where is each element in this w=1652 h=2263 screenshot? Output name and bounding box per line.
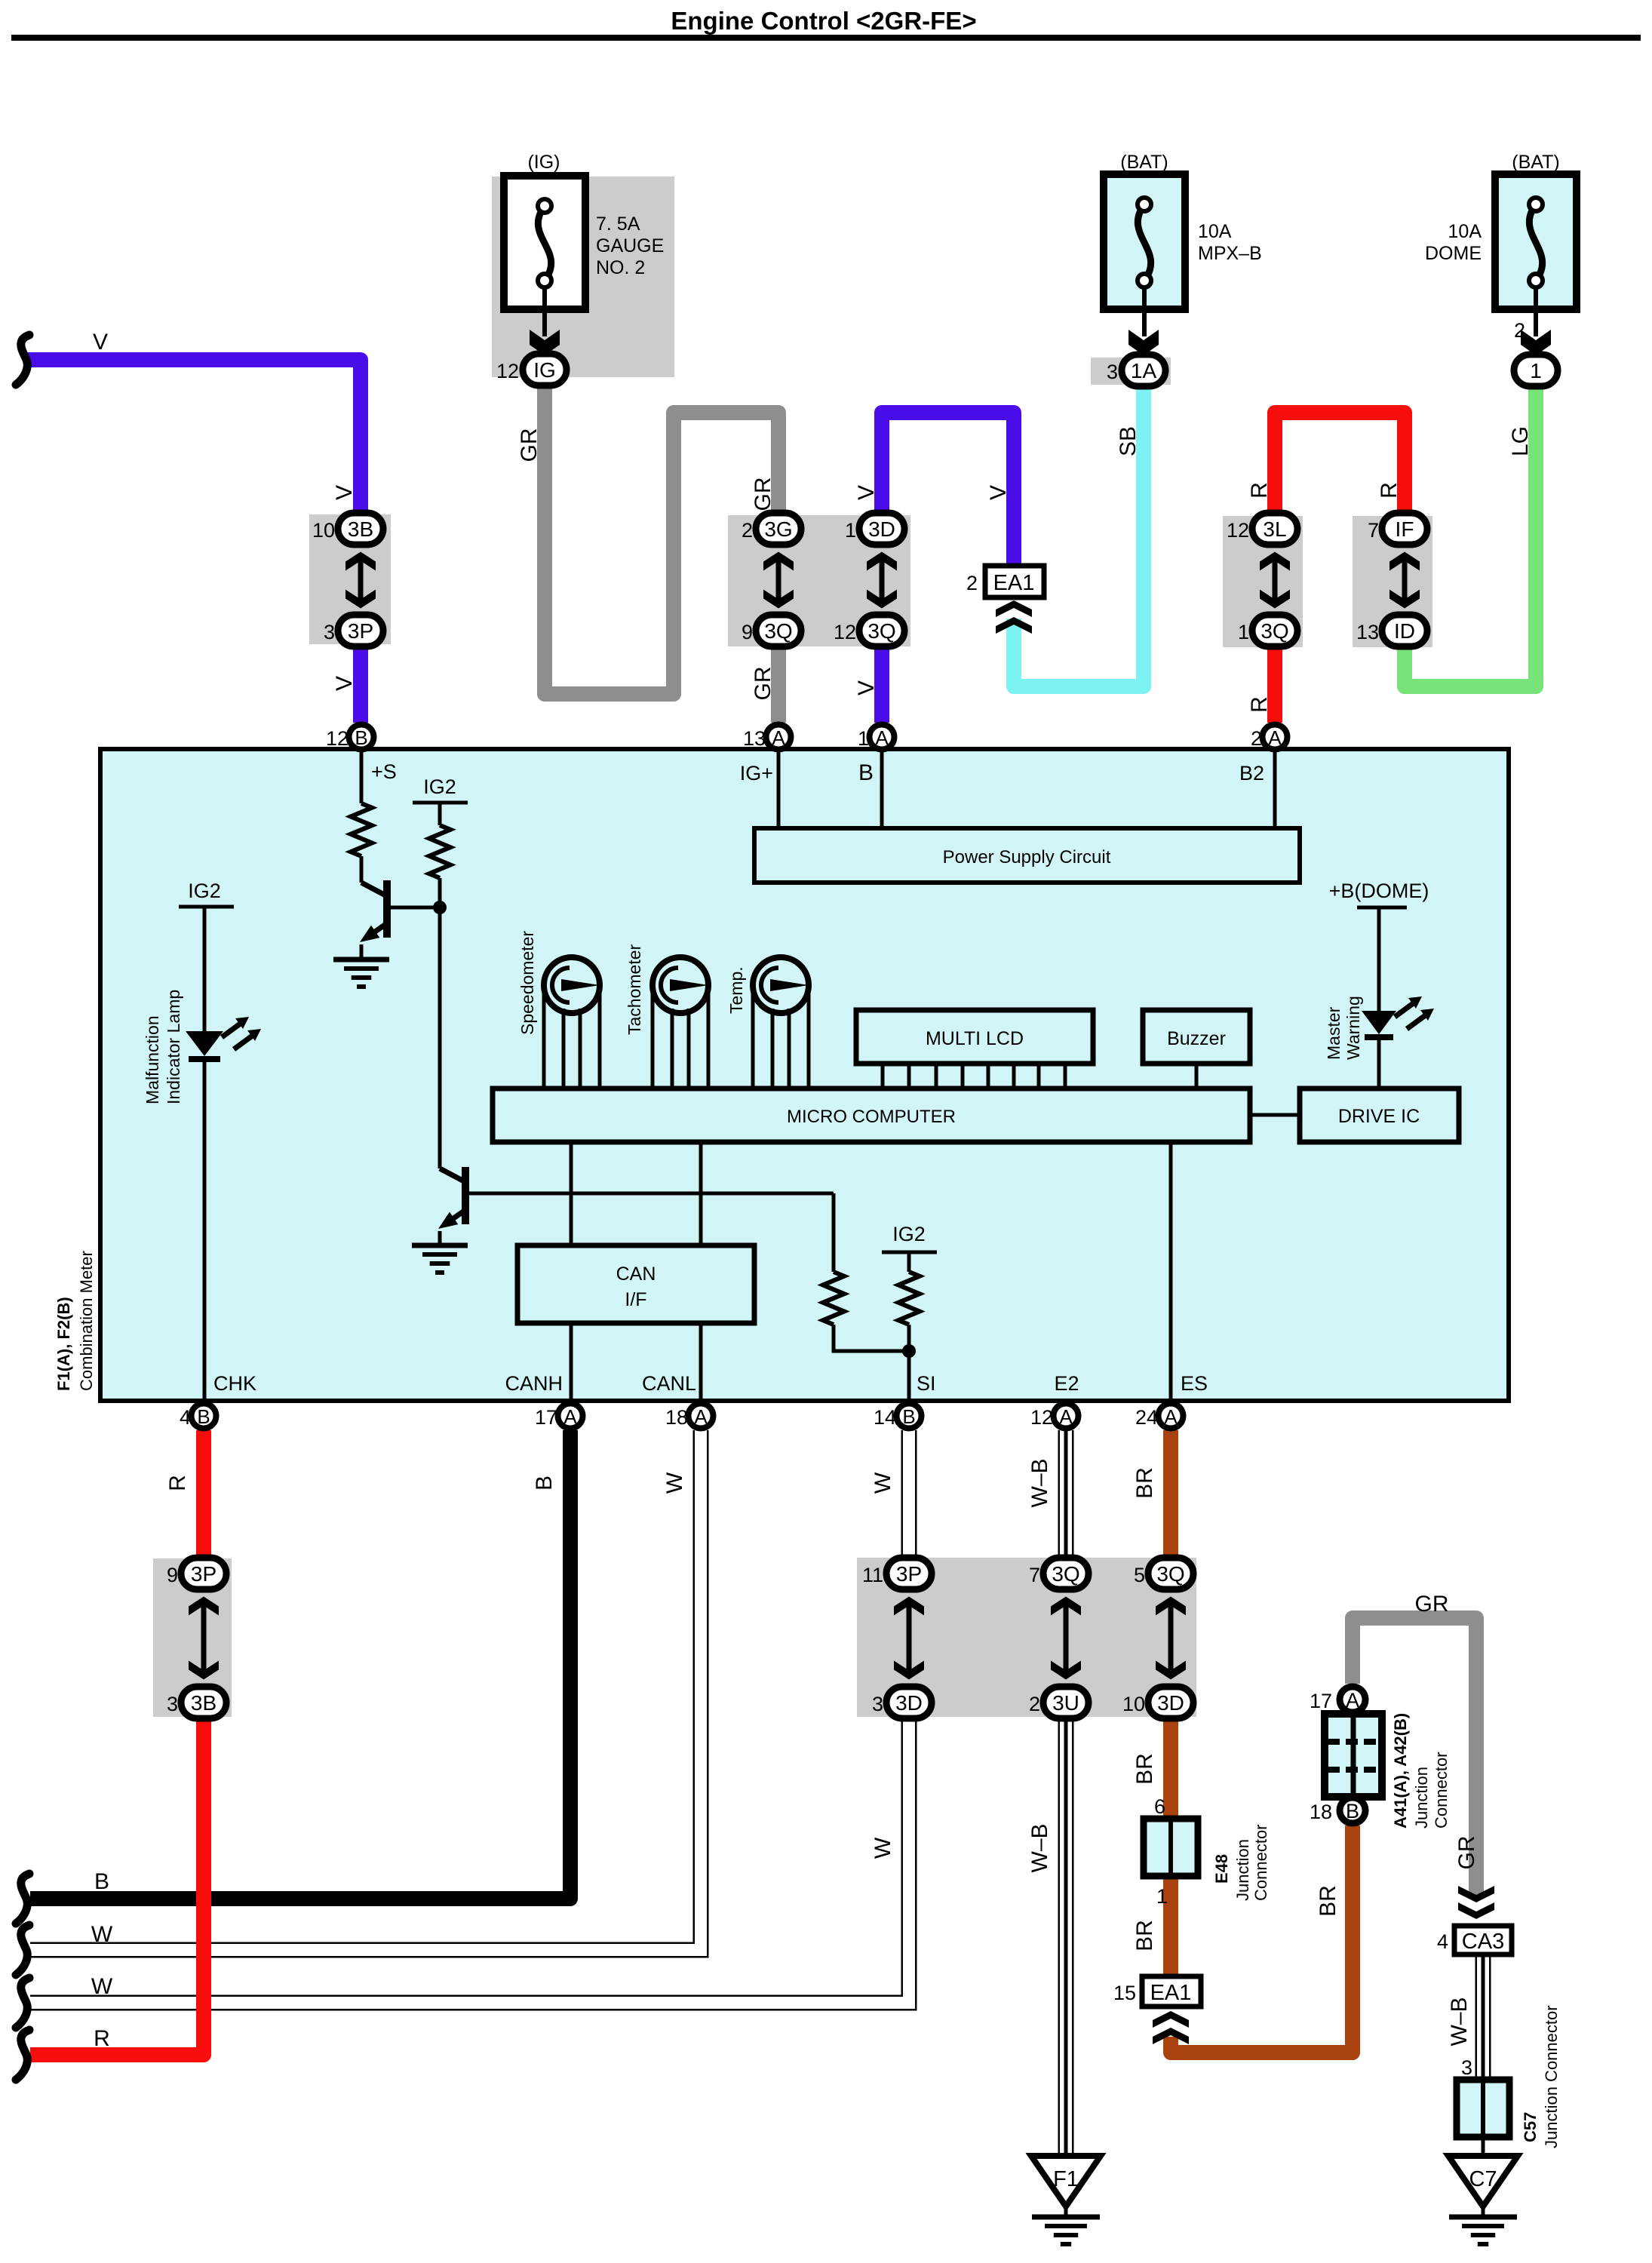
svg-text:10A: 10A (1198, 221, 1232, 242)
MICRO COMPUTER box (493, 1089, 1250, 1142)
connector 3 3D (886, 1687, 932, 1718)
svg-text:Junction: Junction (1233, 1839, 1252, 1901)
svg-text:3Q: 3Q (1052, 1562, 1079, 1586)
svg-text:1A: 1A (1131, 359, 1157, 382)
power supply circuit box (777, 751, 781, 828)
svg-text:3B: 3B (191, 1691, 216, 1715)
svg-text:B: B (858, 760, 874, 785)
wire +S pin to resistor (360, 751, 364, 803)
svg-text:3: 3 (1461, 2056, 1472, 2079)
svg-text:CAN: CAN (616, 1264, 656, 1285)
svg-text:V: V (986, 485, 1011, 500)
svg-text:V: V (332, 676, 357, 691)
LED malfunction indicator (186, 1031, 223, 1056)
svg-text:GR: GR (1415, 1592, 1449, 1617)
svg-text:V: V (854, 680, 879, 695)
junction arrow 3Q-3D (1168, 1598, 1174, 1678)
svg-text:10A: 10A (1448, 221, 1482, 242)
connector 2 3G (756, 513, 801, 545)
gray background connector 1A (1091, 358, 1171, 385)
svg-text:3: 3 (872, 1693, 883, 1715)
svg-text:IF: IF (1396, 517, 1414, 541)
svg-text:GR: GR (517, 428, 542, 462)
svg-text:B: B (94, 1869, 109, 1894)
svg-text:(BAT): (BAT) (1512, 152, 1559, 173)
svg-text:4: 4 (1437, 1930, 1448, 1953)
wire base chain down (438, 907, 442, 1168)
svg-text:B: B (1346, 1800, 1359, 1822)
svg-text:1: 1 (845, 519, 856, 542)
MULTI LCD ticks (881, 1064, 885, 1089)
svg-text:CANH: CANH (505, 1372, 563, 1395)
combination meter box F1(A),F2(B) (100, 749, 1509, 1401)
svg-text:A: A (875, 726, 889, 749)
connector 3 3B lower (181, 1687, 226, 1718)
wire BR ES to 3Q (1163, 1430, 1178, 1558)
meter pin 12 B (+S) (349, 725, 374, 750)
shield connector 15 EA1 (1142, 1976, 1201, 2007)
fuse 7.5A GAUGE NO.2 (IG) (504, 176, 585, 309)
svg-text:V: V (93, 330, 108, 355)
gauge tachometer (653, 957, 708, 1013)
connector pin 3 1A (1122, 355, 1165, 386)
meter pin 1 A (B) (870, 725, 895, 750)
svg-text:A: A (563, 1405, 577, 1428)
svg-text:R: R (1247, 482, 1272, 499)
svg-text:CANL: CANL (642, 1372, 696, 1395)
svg-text:3G: 3G (764, 517, 792, 541)
svg-text:A: A (694, 1405, 708, 1428)
connector 1 3D (859, 513, 904, 545)
wire BR 3D to E48 (1163, 1718, 1178, 1819)
wire R 3Q to meter pin B2 (1267, 645, 1282, 723)
svg-text:3P: 3P (191, 1562, 216, 1586)
connector 5 3Q (1148, 1558, 1193, 1589)
svg-text:3U: 3U (1052, 1691, 1079, 1715)
continuation brace V (16, 335, 29, 385)
ES line (1169, 1142, 1173, 1402)
junction connector C57 (1457, 2080, 1509, 2137)
meter pin 13 A (IG+) (766, 725, 791, 750)
wire R 3L to IF (1275, 413, 1405, 514)
connector 13 ID (1382, 615, 1427, 646)
svg-text:2: 2 (1251, 727, 1262, 750)
junction arrow 3L-3Q (1273, 554, 1278, 606)
ground F1 (1031, 2156, 1101, 2206)
svg-text:3Q: 3Q (1260, 619, 1288, 643)
svg-text:MPX–B: MPX–B (1198, 243, 1262, 264)
svg-text:BR: BR (1132, 1753, 1157, 1785)
gray background connector 3L/3Q (1223, 516, 1303, 647)
svg-text:Warning: Warning (1343, 996, 1363, 1060)
wire BR E48 to EA1 (1163, 1876, 1178, 1976)
svg-text:ES: ES (1181, 1372, 1208, 1395)
ground Q1 (333, 957, 389, 963)
connector 3 3P (338, 615, 383, 646)
ground C7 (1448, 2156, 1518, 2206)
svg-text:Connector: Connector (1432, 1752, 1451, 1829)
svg-text:3: 3 (1107, 361, 1118, 383)
svg-text:W–B: W–B (1027, 1823, 1052, 1872)
junction connector pin 18 B (1340, 1798, 1365, 1823)
svg-text:3: 3 (167, 1693, 178, 1715)
fuse 10A DOME (BAT) (1495, 174, 1577, 309)
svg-text:7: 7 (1368, 519, 1379, 542)
svg-text:F1: F1 (1053, 2167, 1079, 2191)
node base junction (433, 901, 447, 914)
svg-text:E2: E2 (1054, 1372, 1079, 1395)
svg-text:10: 10 (312, 519, 335, 542)
wire W CANL to left (30, 1430, 701, 1950)
wire GR fuse IG to 3G (545, 383, 778, 694)
connector 7 3Q (1043, 1558, 1089, 1589)
svg-text:ID: ID (1394, 619, 1415, 643)
wire GR 3Q to meter pin IG+ (771, 645, 786, 723)
node SI junction (902, 1344, 916, 1358)
gray background connector IF/ID (1353, 516, 1432, 647)
wire LG DOME fuse to ID (1405, 386, 1536, 686)
wire W-B 3U to F1 ground (1058, 1718, 1074, 2156)
chevrons below EA1 (996, 600, 1032, 617)
wire W SI lower to left (30, 1718, 909, 2003)
connector 9 3P lower (181, 1558, 226, 1589)
svg-text:B: B (355, 726, 367, 749)
svg-text:14: 14 (874, 1406, 896, 1429)
svg-text:W–B: W–B (1027, 1458, 1052, 1507)
svg-text:13: 13 (743, 727, 766, 750)
svg-text:R: R (1377, 482, 1402, 499)
svg-text:9: 9 (167, 1564, 178, 1586)
meter pin 4 B (CHK) (192, 1404, 216, 1429)
svg-text:3Q: 3Q (867, 619, 895, 643)
svg-text:GAUGE: GAUGE (596, 235, 664, 256)
junction connector E48 (1144, 1819, 1198, 1876)
connector 10 3B (338, 513, 383, 545)
svg-text:12: 12 (1030, 1406, 1053, 1429)
svg-text:3B: 3B (348, 517, 373, 541)
svg-text:SI: SI (917, 1372, 936, 1395)
svg-text:3: 3 (324, 621, 335, 643)
chevrons below EA1 lower (1153, 2011, 1189, 2028)
wire C57 to C7 ground (1482, 2137, 1485, 2156)
svg-text:7: 7 (1029, 1564, 1040, 1586)
svg-text:IG+: IG+ (740, 762, 773, 785)
wire SB EA1 to 1A (1014, 386, 1144, 686)
svg-text:24: 24 (1135, 1406, 1158, 1429)
svg-text:3D: 3D (868, 517, 895, 541)
svg-text:15: 15 (1113, 1982, 1136, 2004)
transistor Q2 (440, 1168, 465, 1182)
SI pull resistors (832, 1193, 836, 1272)
svg-text:+B(DOME): +B(DOME) (1329, 880, 1429, 902)
svg-text:IG: IG (533, 358, 556, 382)
svg-text:Malfunction: Malfunction (143, 1015, 162, 1104)
svg-text:7. 5A: 7. 5A (596, 213, 640, 235)
meter pin 2 A (B2) (1263, 725, 1288, 750)
svg-text:CHK: CHK (213, 1372, 256, 1395)
DRIVE IC box (1300, 1089, 1459, 1142)
svg-text:MICRO COMPUTER: MICRO COMPUTER (787, 1107, 956, 1127)
svg-text:12: 12 (326, 727, 349, 750)
resistor IG2 (429, 825, 450, 878)
wire W-B CA3 to C57 (1475, 1954, 1491, 2080)
chevrons above CA3 (1458, 1886, 1494, 1902)
svg-text:Engine Control <2GR-FE>: Engine Control <2GR-FE> (671, 7, 976, 35)
connector 11 3P (886, 1558, 932, 1589)
connector pin 12 IG (523, 354, 567, 385)
svg-text:E48: E48 (1212, 1854, 1231, 1884)
shield connector 2 EA1 (985, 566, 1044, 597)
arrow into IG pin (530, 330, 560, 355)
svg-text:W–B: W–B (1447, 1997, 1472, 2046)
wire BR EA1 chevron to A41 pin B (1171, 1825, 1353, 2053)
svg-text:2: 2 (966, 572, 978, 594)
wire V 3D to EA1 top (882, 413, 1014, 566)
svg-text:1: 1 (1530, 359, 1542, 382)
connector 7 IF (1382, 513, 1427, 545)
svg-text:Junction: Junction (1412, 1767, 1431, 1829)
resistor +S (351, 803, 372, 856)
svg-text:EA1: EA1 (1150, 1981, 1192, 2005)
junction connector pin 17 A (1340, 1687, 1365, 1712)
svg-text:CA3: CA3 (1462, 1930, 1504, 1954)
transistor Q1 (360, 856, 364, 883)
svg-text:A: A (1268, 726, 1282, 749)
svg-text:Indicator Lamp: Indicator Lamp (164, 990, 183, 1104)
svg-text:DOME: DOME (1425, 243, 1482, 264)
gray background connector 3P/3B lower (153, 1558, 232, 1717)
svg-text:Buzzer: Buzzer (1167, 1028, 1226, 1049)
svg-text:3P: 3P (896, 1562, 922, 1586)
svg-text:C57: C57 (1521, 2112, 1540, 2142)
svg-text:2: 2 (742, 519, 753, 542)
junction arrow 3P-3B (201, 1598, 207, 1678)
Buzzer box (1143, 1010, 1250, 1064)
gray background connector 3P/3Q/3Q row lower (857, 1558, 1196, 1717)
svg-text:R: R (1247, 696, 1272, 713)
meter pin 24 A (ES) (1159, 1404, 1184, 1429)
svg-text:4: 4 (180, 1406, 191, 1429)
svg-text:Master: Master (1324, 1006, 1343, 1060)
svg-text:B: B (532, 1475, 557, 1491)
MULTI LCD box (856, 1010, 1093, 1064)
svg-text:A: A (1346, 1689, 1359, 1712)
wire V 3P to meter pin B (353, 645, 368, 723)
gray background fuse GAUGE NO.2 (492, 177, 674, 377)
LED master warning (1362, 1011, 1396, 1034)
svg-text:W: W (871, 1472, 895, 1494)
svg-text:18: 18 (1310, 1801, 1332, 1823)
svg-text:3Q: 3Q (764, 619, 792, 643)
svg-text:W: W (871, 1837, 895, 1859)
svg-text:3D: 3D (895, 1691, 923, 1715)
svg-text:12: 12 (1227, 519, 1249, 542)
svg-text:5: 5 (1134, 1564, 1145, 1586)
junction arrow 3P-3D (907, 1598, 912, 1678)
junction arrow IF-ID (1402, 554, 1408, 606)
ground Q2 (412, 1243, 468, 1248)
meter pin 17 A (CANH) (558, 1404, 583, 1429)
svg-text:(IG): (IG) (527, 152, 560, 173)
gray background connector 3G/3D row (728, 515, 910, 646)
svg-text:3L: 3L (1263, 517, 1286, 541)
svg-text:R: R (165, 1475, 190, 1491)
arrow into DOME pin 1 (1521, 330, 1551, 355)
svg-text:F1(A), F2(B): F1(A), F2(B) (54, 1297, 73, 1391)
svg-text:+S: +S (371, 760, 397, 783)
svg-text:12: 12 (496, 360, 519, 382)
svg-text:Junction Connector: Junction Connector (1542, 2005, 1561, 2148)
svg-text:V: V (854, 485, 879, 500)
gauge temp (753, 957, 809, 1013)
svg-text:IG2: IG2 (423, 775, 456, 798)
svg-text:GR: GR (751, 667, 775, 701)
junction arrow 3D-3Q (880, 554, 885, 606)
continuation brace R (16, 2030, 29, 2080)
svg-text:GR: GR (1454, 1836, 1479, 1870)
connector 12 3Q (859, 615, 904, 646)
connector 10 3D (1148, 1687, 1193, 1718)
connector pin 1 (1514, 355, 1558, 386)
meter pin 18 A (CANL) (689, 1404, 714, 1429)
svg-text:Tachometer: Tachometer (625, 944, 644, 1035)
svg-text:W: W (662, 1472, 687, 1494)
continuation brace B (16, 1874, 29, 1924)
svg-text:B: B (902, 1405, 915, 1428)
svg-text:BR: BR (1316, 1885, 1340, 1917)
svg-text:13: 13 (1356, 621, 1379, 643)
svg-text:17: 17 (535, 1406, 557, 1429)
CAN I/F box and lines (570, 1142, 573, 1245)
wire R CHK to 3P (196, 1430, 211, 1558)
svg-text:(BAT): (BAT) (1120, 152, 1168, 173)
svg-text:Speedometer: Speedometer (517, 931, 537, 1035)
arrow into 1A pin (1128, 330, 1159, 355)
svg-text:9: 9 (742, 621, 753, 643)
wire V horizontal top-left (26, 360, 361, 514)
svg-text:NO. 2: NO. 2 (596, 257, 645, 278)
svg-text:B2: B2 (1239, 762, 1264, 785)
link micro to drive ic (1250, 1113, 1300, 1117)
svg-text:12: 12 (834, 621, 856, 643)
gray background connector 3B/3P (309, 514, 391, 644)
wire W SI upper segment (901, 1430, 917, 1558)
svg-text:3D: 3D (1157, 1691, 1184, 1715)
junction arrow 3G-3Q (776, 554, 781, 606)
shield connector 4 CA3 (1454, 1926, 1512, 1954)
svg-text:W: W (91, 1922, 113, 1947)
svg-text:GR: GR (751, 477, 775, 511)
connector 1 3Q (1252, 615, 1297, 646)
wire GR A41 pin A to CA3 (1353, 1618, 1476, 1895)
svg-text:W: W (91, 1974, 113, 1999)
svg-text:BR: BR (1132, 1920, 1157, 1951)
svg-text:A41(A), A42(B): A41(A), A42(B) (1391, 1713, 1410, 1829)
svg-text:LG: LG (1508, 426, 1533, 456)
junction arrow 3B-3P (358, 554, 364, 606)
svg-text:BR: BR (1132, 1467, 1157, 1499)
wire R 3B down and left (30, 1718, 204, 2055)
junction arrow 3Q-3U (1064, 1598, 1069, 1678)
svg-text:R: R (94, 2026, 110, 2051)
meter pin 14 B (SI) (897, 1404, 922, 1429)
svg-text:11: 11 (862, 1564, 883, 1586)
wire W-B E2 upper segment (1058, 1430, 1074, 1558)
svg-text:EA1: EA1 (993, 571, 1035, 595)
svg-text:Combination Meter: Combination Meter (77, 1251, 96, 1391)
svg-text:IG2: IG2 (188, 880, 221, 902)
svg-text:2: 2 (1029, 1693, 1040, 1715)
svg-text:SB: SB (1116, 426, 1141, 456)
svg-text:3Q: 3Q (1156, 1562, 1184, 1586)
svg-text:MULTI LCD: MULTI LCD (926, 1028, 1024, 1049)
svg-text:V: V (332, 485, 357, 500)
svg-text:C7: C7 (1469, 2167, 1497, 2191)
connector 2 3U (1043, 1687, 1089, 1718)
svg-text:3P: 3P (348, 619, 373, 643)
svg-text:I/F: I/F (625, 1289, 646, 1310)
meter pin 12 A (E2) (1054, 1404, 1079, 1429)
svg-text:17: 17 (1310, 1690, 1332, 1712)
svg-text:IG2: IG2 (892, 1223, 926, 1245)
svg-text:A: A (1164, 1405, 1178, 1428)
svg-text:A: A (772, 726, 785, 749)
svg-text:Power Supply Circuit: Power Supply Circuit (943, 847, 1111, 867)
svg-text:Temp.: Temp. (726, 966, 746, 1014)
svg-text:DRIVE IC: DRIVE IC (1338, 1106, 1420, 1127)
wire B CANH to left (30, 1430, 570, 1899)
svg-text:1: 1 (858, 727, 869, 750)
junction connector A41(A) A42(B) (1325, 1714, 1382, 1797)
connector 9 3Q (756, 615, 801, 646)
continuation brace W1 (16, 1925, 29, 1975)
gauge speedometer (544, 957, 600, 1013)
svg-text:10: 10 (1122, 1693, 1145, 1715)
connector 12 3L (1252, 513, 1297, 545)
svg-text:1: 1 (1156, 1885, 1168, 1908)
svg-text:Connector: Connector (1251, 1824, 1270, 1901)
wire V 3Q to meter pin B (874, 645, 889, 723)
svg-text:18: 18 (665, 1406, 688, 1429)
fuse 10A MPX-B (BAT) (1104, 174, 1185, 309)
svg-text:6: 6 (1154, 1795, 1165, 1818)
svg-text:1: 1 (1238, 621, 1249, 643)
svg-text:B: B (197, 1405, 210, 1428)
continuation brace W2 (16, 1978, 29, 2028)
svg-text:A: A (1059, 1405, 1073, 1428)
